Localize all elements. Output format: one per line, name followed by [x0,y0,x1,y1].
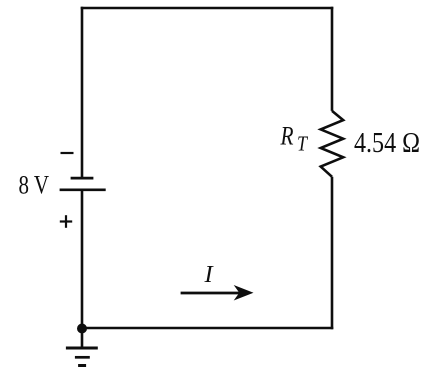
svg-text:R: R [280,121,294,151]
label minus polarity [61,152,74,154]
svg-text:4.54 Ω: 4.54 Ω [354,128,420,159]
battery V1 8 V [60,178,106,190]
wire ground stub [81,329,84,349]
node junction dot [77,324,87,334]
label RT [280,121,308,156]
resistor RT [321,111,344,177]
wire bottom [82,327,333,330]
svg-text:I: I [204,261,215,288]
svg-text:T: T [297,132,308,156]
wire left lower [81,190,84,329]
label plus polarity [60,215,72,228]
wire left upper [81,7,84,178]
ground [66,348,98,366]
svg-text:8 V: 8 V [19,170,50,200]
wire right upper [331,7,334,111]
current arrow [181,285,254,301]
wire right lower [331,177,334,329]
wire top [81,7,334,10]
